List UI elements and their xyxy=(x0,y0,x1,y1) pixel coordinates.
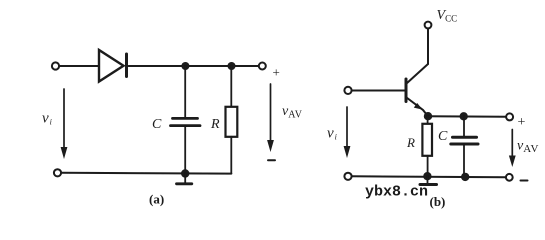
resistor R (b) xyxy=(422,124,432,156)
wire C branch top (a) xyxy=(184,66,186,117)
bottom rail (b) xyxy=(352,175,506,178)
transistor Q base bar xyxy=(405,79,408,102)
capacitor C (b) xyxy=(451,137,478,144)
svg-text:ybx8.cn: ybx8.cn xyxy=(365,184,428,201)
wire R branch bottom (a) xyxy=(230,137,232,174)
terminal top-left (a) xyxy=(52,62,59,69)
bottom-right terminal (b) xyxy=(506,174,513,181)
svg-text:vAV: vAV xyxy=(282,104,303,121)
output terminal + (b) xyxy=(506,113,513,120)
output terminal + (a) xyxy=(259,63,266,70)
ground node dot (a) xyxy=(181,169,189,177)
transistor Q collector lead xyxy=(407,64,429,84)
wire top-left to diode anode xyxy=(60,65,99,67)
wire C branch bottom (b) xyxy=(463,145,465,177)
wire R branch top (a) xyxy=(230,66,232,107)
svg-text:+: + xyxy=(273,65,280,80)
node junction at C branch (a) xyxy=(181,62,189,70)
wire diode cathode to output (a) xyxy=(129,65,259,67)
minus sign (b) xyxy=(521,180,528,182)
bottom node dot R (b) xyxy=(423,172,431,180)
svg-text:R: R xyxy=(406,135,415,150)
svg-text:R: R xyxy=(210,117,220,132)
svg-text:VCC: VCC xyxy=(437,8,458,24)
wire R branch bottom (b) xyxy=(427,156,429,176)
arrow v_AV (b) xyxy=(509,130,516,168)
svg-text:(b): (b) xyxy=(430,194,446,209)
arrow v_i (b) xyxy=(344,107,351,158)
capacitor C (a) xyxy=(171,118,201,125)
bottom-left terminal (b) xyxy=(344,173,351,180)
bottom node dot C (b) xyxy=(461,173,469,181)
terminal bottom-left (a) xyxy=(54,169,61,176)
svg-text:C: C xyxy=(152,117,162,132)
wire C branch bottom (a) xyxy=(184,127,186,174)
diode D (a) xyxy=(99,50,127,82)
node junction at R branch (a) xyxy=(228,62,236,70)
resistor R (a) xyxy=(226,107,238,137)
svg-text:vi: vi xyxy=(327,126,337,142)
top wire emitter to output (b) xyxy=(428,115,506,118)
svg-text:vi: vi xyxy=(42,111,52,127)
base wire (b) xyxy=(352,90,405,92)
wire R branch top (b) xyxy=(427,116,429,124)
terminal Vcc (b) xyxy=(425,22,432,29)
ground symbol (a) xyxy=(177,174,192,184)
ground symbol (b) xyxy=(420,177,437,185)
minus sign (a) xyxy=(268,159,275,161)
transistor Q emitter lead with arrow xyxy=(407,98,428,117)
svg-text:C: C xyxy=(438,129,448,144)
arrow v_AV (a) xyxy=(267,84,274,152)
node junction at C branch (b) xyxy=(460,112,468,120)
svg-text:+: + xyxy=(518,115,526,130)
bottom wire (a) xyxy=(62,172,232,175)
wire Vcc to collector (b) xyxy=(427,29,429,64)
arrow v_i (a) xyxy=(61,89,68,159)
wire C branch top (b) xyxy=(463,116,465,135)
input terminal (b) xyxy=(344,87,351,94)
svg-text:(a): (a) xyxy=(149,192,164,207)
svg-text:vAV: vAV xyxy=(517,139,539,156)
emitter node dot (b) xyxy=(424,112,432,120)
